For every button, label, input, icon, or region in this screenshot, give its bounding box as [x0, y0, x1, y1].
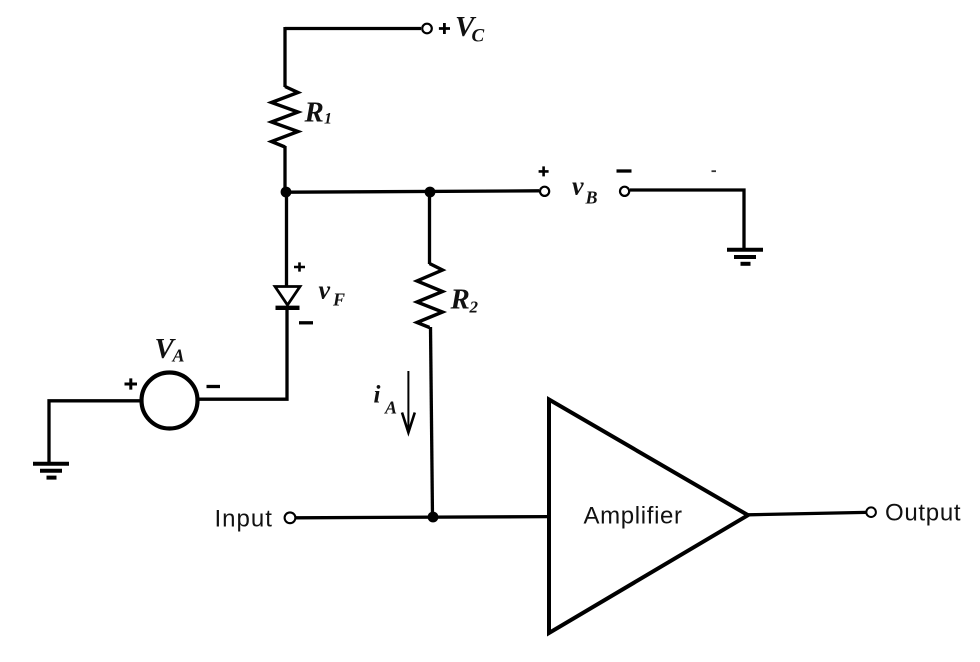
svg-text:i: i	[374, 381, 381, 408]
wire: node A down to diode anode	[285, 192, 288, 286]
label iA	[374, 381, 398, 417]
label + (diode anode)	[294, 262, 305, 271]
svg-text:R: R	[304, 97, 324, 129]
diode D1	[275, 287, 300, 308]
wire: node A to vB+ terminal	[286, 191, 539, 192]
label + (VA left)	[125, 378, 138, 389]
label VA	[155, 333, 185, 365]
wire: Vc supply lead (horizontal)	[285, 27, 421, 30]
wire: node B down to resistor R2	[428, 192, 431, 264]
wire: diode cathode down, corner left to source VA	[199, 306, 287, 399]
svg-text:B: B	[585, 188, 598, 208]
node C (junction dot)	[428, 512, 439, 523]
label vF	[319, 276, 346, 310]
terminal Input (open circle)	[285, 512, 296, 523]
wire: Input terminal to amplifier	[296, 517, 549, 518]
terminal vB+ (open circle)	[540, 187, 549, 196]
wire: amplifier output lead	[748, 512, 866, 514]
ground (right)	[727, 250, 763, 264]
svg-text:Amplifier: Amplifier	[584, 503, 683, 530]
scan speck	[712, 170, 717, 172]
node A (junction dot)	[281, 187, 292, 198]
label − (vB minus)	[617, 169, 632, 172]
voltage source VA	[142, 373, 198, 429]
wire: vB− terminal to right corner, down to ground	[630, 190, 744, 248]
svg-text:C: C	[472, 26, 485, 47]
svg-text:v: v	[319, 276, 331, 305]
resistor R2	[417, 264, 443, 328]
label + (vB plus)	[539, 166, 549, 176]
svg-text:1: 1	[324, 111, 332, 128]
label R2	[450, 284, 479, 317]
svg-text:F: F	[332, 290, 345, 310]
wire: R1 bottom to node A	[283, 146, 286, 193]
node B (junction dot)	[425, 187, 436, 198]
label +Vc	[439, 11, 485, 47]
wire: VA left to corner, down to ground	[49, 401, 141, 462]
terminal Output (open circle)	[866, 507, 876, 517]
current arrow iA	[402, 371, 415, 433]
ground (left)	[33, 464, 69, 478]
wire: R2 bottom to node C	[431, 327, 433, 517]
wire: Vc lead down to resistor R1	[283, 27, 286, 87]
label − (VA right)	[207, 385, 221, 388]
label R1	[304, 97, 333, 129]
label vB	[572, 172, 598, 208]
svg-text:R: R	[450, 284, 470, 316]
svg-text:Input: Input	[215, 506, 273, 533]
label − (diode cathode)	[299, 321, 313, 324]
resistor R1	[272, 87, 299, 148]
terminal +Vc (open circle)	[422, 24, 432, 34]
svg-text:v: v	[572, 172, 584, 201]
svg-text:Output: Output	[885, 500, 961, 527]
op-amp U1 (amplifier triangle)	[549, 400, 748, 634]
svg-text:2: 2	[469, 298, 479, 317]
svg-text:A: A	[172, 345, 185, 365]
svg-text:A: A	[384, 398, 397, 418]
terminal vB− (open circle)	[620, 187, 629, 196]
